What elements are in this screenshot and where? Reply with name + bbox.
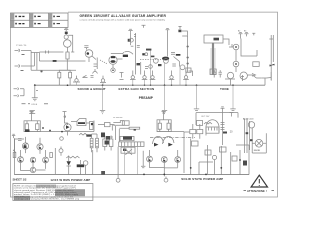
- dark bar DB: [77, 164, 85, 167]
- reverb driver bar: [212, 43, 214, 75]
- dark blob m2: [106, 136, 110, 140]
- supply tee S-left2: [63, 112, 67, 116]
- svg-text:PREAMP: PREAMP: [139, 96, 154, 100]
- resistor R20: [253, 62, 259, 67]
- driver box Q7: [77, 119, 86, 126]
- speaker SP1: [255, 140, 263, 148]
- right vertical pair: [269, 35, 273, 80]
- Q4 legs: [32, 157, 35, 162]
- dark blob q1: [24, 145, 27, 148]
- dark mark w2: [250, 139, 253, 141]
- jack J1 label: [22, 54, 25, 56]
- bracket C12: [182, 31, 188, 36]
- supply tee S-right: [230, 113, 234, 117]
- P6 dot: [235, 46, 237, 48]
- cathode circle V2k: [111, 68, 115, 72]
- P12 stem: [150, 71, 156, 80]
- wire V2 out: [113, 59, 123, 68]
- pot P11 stem: [183, 71, 192, 80]
- OT arc: [206, 120, 219, 127]
- pot P9 stem: [142, 71, 148, 80]
- arc hump QL: [153, 136, 164, 144]
- bus riser right: [264, 78, 266, 85]
- resistor R31: [36, 124, 39, 130]
- tube V5: [64, 124, 71, 131]
- notes text: [14, 184, 80, 200]
- resistor R32: [158, 123, 161, 129]
- blob R12: [151, 56, 155, 58]
- wire V5: [64, 115, 67, 136]
- wire tank: [223, 39, 233, 47]
- wire diag: [174, 57, 180, 67]
- tube V2: [109, 56, 117, 64]
- marks near C8: [131, 45, 134, 47]
- interior mid parts: rect pm: [205, 150, 211, 155]
- transformer box T1a: [190, 130, 196, 134]
- driver box R: [157, 120, 171, 132]
- QO1 legs: [149, 156, 152, 161]
- pot P6: [233, 44, 239, 50]
- wire 187: [187, 36, 189, 72]
- tube V3: [240, 72, 247, 79]
- input jack J2: [15, 65, 25, 68]
- notes dark blot2: [14, 196, 30, 200]
- pot P5 stem: [100, 76, 106, 83]
- pot drops: [77, 79, 187, 85]
- zigzag R70: [204, 122, 212, 124]
- junction dots on bus: [34, 84, 234, 86]
- wire pots: [232, 44, 236, 72]
- svg-text:SOUND & BRIGHT: SOUND & BRIGHT: [78, 87, 106, 91]
- jack J2 label: [21, 70, 24, 72]
- small circle trim: [60, 137, 64, 141]
- pot knob dark: [162, 57, 169, 61]
- dashed link: [140, 59, 161, 61]
- resistor R40: [90, 138, 93, 148]
- switch S1: [83, 75, 88, 77]
- pot P5: [101, 79, 104, 82]
- extra verticals mid: [151, 50, 181, 85]
- svg-text:B2: B2: [238, 31, 240, 33]
- rect p1: [192, 141, 199, 146]
- pot P3: [153, 58, 158, 63]
- connector ring CN2: [164, 178, 168, 182]
- reverb cable shield: [211, 48, 215, 75]
- trim marks: [171, 53, 175, 55]
- wire CN2: [165, 177, 167, 179]
- wire mz: [98, 125, 115, 131]
- transistor Q2: [37, 144, 43, 150]
- wires k: [116, 126, 130, 142]
- R50 dark end: [134, 129, 136, 131]
- page border frame: [11, 12, 278, 197]
- dark mark d1: [137, 63, 141, 65]
- box under header: [121, 147, 135, 153]
- ground drop GR: [141, 151, 145, 168]
- svg-text:0 10 0: 0 10 0: [32, 104, 38, 106]
- P7 dot: [235, 63, 237, 65]
- bus under box L: [24, 131, 94, 133]
- OT hatch: [206, 127, 219, 136]
- TR2 stem: [60, 147, 62, 156]
- small box K1: [122, 121, 129, 126]
- comb dark: [91, 123, 93, 125]
- power amp box right edge: [248, 145, 250, 175]
- ground G4: [162, 110, 167, 114]
- emitter resistor RE1: [50, 153, 53, 158]
- svg-text:TONE: TONE: [220, 87, 229, 91]
- driver cluster wires: [71, 121, 94, 132]
- ground G2: [29, 110, 35, 113]
- dashed diag: [100, 60, 108, 64]
- grid stopper R2: [53, 60, 57, 62]
- dark mark pm: [243, 161, 247, 166]
- svg-text:a classic all tube preamp desi: a classic all tube preamp design with a …: [80, 19, 166, 22]
- V2a cathode dot: [87, 52, 90, 55]
- small box T21: [197, 121, 203, 126]
- header drop wire: [117, 147, 119, 179]
- marks eq: [18, 139, 22, 141]
- Q7 dark bar: [78, 122, 85, 124]
- footswitch contact 1: [14, 88, 25, 90]
- tee T12: [166, 29, 170, 57]
- gain pot dark blob: [142, 53, 145, 55]
- triangle TR: [168, 143, 173, 147]
- resistor R33: [167, 123, 170, 129]
- arc hump QR: [163, 136, 175, 144]
- knob row resistor Rb: [69, 72, 72, 78]
- transistor dark spots: [20, 146, 179, 162]
- power amp box top stub: [14, 139, 249, 145]
- grid wire to V1: [39, 51, 63, 62]
- wires box L: [27, 116, 37, 132]
- bracket wire C1: [66, 34, 74, 52]
- cap C8 body: [128, 39, 131, 42]
- OT base rect: [206, 127, 219, 133]
- resistor R50: [129, 127, 140, 129]
- ground G1: [32, 98, 38, 101]
- label dashes: [22, 103, 31, 105]
- reverb jack rect: [210, 69, 216, 75]
- wires output R: [150, 150, 178, 176]
- Q5 legs: [45, 157, 48, 162]
- bus top wire: [31, 52, 39, 54]
- header drops light: [125, 147, 138, 175]
- svg-text:OUT 20V: OUT 20V: [201, 116, 210, 118]
- warning side marks: [244, 190, 275, 192]
- speaker X: [256, 141, 261, 146]
- dark bits: [86, 134, 91, 136]
- Q6 legs: [32, 167, 35, 172]
- revision table: [11, 13, 69, 27]
- wire col x92.7: [92, 150, 94, 174]
- resistor R41: [96, 138, 99, 148]
- dark mark in box: [123, 149, 126, 151]
- right interior verticals: [191, 139, 240, 175]
- svg-text:P 100 / 20: P 100 / 20: [16, 45, 27, 47]
- svg-text:ATTENZIONE !: ATTENZIONE !: [247, 189, 267, 193]
- dark bar R11: [111, 56, 115, 58]
- reverb tank box: [204, 35, 223, 43]
- dark blob m1: [101, 133, 105, 138]
- vertical pm: [199, 145, 215, 174]
- resistor hatch: [90, 141, 98, 146]
- transistor Q6: [30, 167, 35, 172]
- long wire mid: [134, 33, 136, 75]
- tube V2a: [85, 50, 93, 58]
- wires output L: [21, 148, 56, 174]
- tone caps 2: [219, 70, 222, 77]
- X wires: [125, 149, 132, 154]
- cluster rect B: [109, 139, 113, 147]
- arc wire: [125, 51, 134, 54]
- pot P7: [233, 61, 239, 67]
- border tee TB: [12, 134, 15, 138]
- output top wires: [196, 113, 238, 125]
- right verticals: [245, 119, 253, 154]
- diode bar: [67, 165, 71, 167]
- wire V2a: [57, 56, 98, 69]
- bus junction dots2: [132, 84, 187, 86]
- cap C11: [178, 30, 181, 33]
- node dots column: [187, 46, 189, 65]
- supply tee S-mid: [162, 112, 166, 116]
- input bus wire 3: [36, 53, 38, 71]
- pot P4 ring: [164, 59, 169, 64]
- transistor Q4: [30, 157, 35, 162]
- cap C30: [221, 123, 225, 125]
- QO2 legs: [163, 157, 166, 162]
- notes dark blot: [55, 189, 85, 196]
- cluster dark A: [105, 141, 110, 145]
- QO3 legs: [177, 157, 180, 162]
- input bus wire 1: [30, 51, 32, 71]
- box glyph G12: [186, 68, 191, 72]
- wire V1 cathode: [67, 48, 69, 53]
- svg-text:xx xxx xxx: xx xxx xxx: [113, 117, 122, 119]
- zigzag R60: [66, 156, 79, 158]
- svg-text:8R/4R: 8R/4R: [254, 150, 261, 152]
- C1 body: [65, 32, 68, 34]
- input bus wire 4: [38, 53, 40, 62]
- electrolytic cap C8 tee: [128, 29, 132, 33]
- transistor Q8: [83, 161, 88, 166]
- comb resistor: [90, 122, 94, 130]
- dark dash e1: [223, 132, 227, 134]
- pot P8: [131, 76, 134, 79]
- dark bar R11b: [123, 55, 128, 57]
- wire V1 down: [67, 59, 76, 71]
- connector ring CN1: [116, 178, 120, 182]
- dark bar R15: [176, 54, 181, 56]
- ground bus y85: [35, 84, 265, 86]
- transistor Q3: [18, 157, 24, 163]
- circle pm: [212, 155, 216, 159]
- notes box: [13, 184, 93, 201]
- pin header J10: [119, 142, 144, 147]
- output transistor QO2: [161, 157, 167, 163]
- step bracket wires: [113, 121, 124, 126]
- bus bottom wire: [31, 70, 67, 72]
- dark blob m3: [123, 137, 132, 140]
- transistor Q1: [22, 143, 28, 149]
- wires R40: [92, 134, 97, 152]
- arc glyph: [93, 69, 98, 74]
- border tee wire: [13, 138, 16, 153]
- tee T11: [178, 26, 181, 29]
- footswitch contact 2: [14, 89, 25, 97]
- cap C31: [221, 128, 225, 130]
- node wire: [130, 33, 132, 45]
- wires knob row: [59, 70, 70, 85]
- Q1 legs: [25, 137, 28, 153]
- input jack J1: [15, 49, 25, 52]
- wires box R: [160, 116, 169, 132]
- tone wires: [225, 75, 244, 85]
- dark blob bx: [25, 129, 30, 132]
- svg-text:SHEET 1/2: SHEET 1/2: [13, 178, 27, 182]
- notes dark blot3: [36, 185, 56, 188]
- tee mark under subtitle: [142, 25, 146, 28]
- rectifier ring: [248, 122, 254, 128]
- filter cap C1 tee: [64, 28, 68, 31]
- tee T20: [221, 107, 225, 145]
- emitter resistor RE2: [13, 153, 16, 158]
- pot P9: [143, 76, 146, 79]
- tank dark blob: [214, 38, 220, 41]
- resistor R30: [25, 124, 28, 130]
- trimmer TR2: [59, 149, 63, 153]
- mark B4: [252, 33, 255, 35]
- junction dots pw: [42, 127, 63, 132]
- svg-text:AC20 C200: AC20 C200: [243, 118, 254, 121]
- dark mark d2: [158, 64, 162, 66]
- output transistor QO1: [147, 156, 153, 162]
- arrowheads: [270, 64, 275, 67]
- marks x120: [120, 73, 124, 80]
- caps c40: [172, 64, 176, 66]
- small circle sc1: [149, 65, 153, 69]
- volume pot P1: [75, 79, 78, 82]
- cap C9: [137, 46, 140, 48]
- Q2 legs: [39, 138, 42, 154]
- tube V1: [64, 40, 72, 48]
- power amp box left edge: [13, 139, 15, 175]
- cluster wires: [101, 136, 113, 151]
- label dash2: [44, 103, 48, 105]
- wire stub: [141, 62, 148, 75]
- tone tube V4: [227, 72, 233, 78]
- tone caps: [213, 70, 216, 77]
- input bus wire 2: [33, 53, 35, 67]
- svg-text:B3: B3: [244, 31, 246, 33]
- wires sub: [69, 156, 86, 175]
- ground G3: [100, 110, 105, 114]
- svg-text:GREEN 15R/20RT ALL-VALVE GUITA: GREEN 15R/20RT ALL-VALVE GUITAR AMPLIFIE…: [80, 14, 167, 18]
- box over header: [120, 136, 134, 140]
- ground G5: [194, 109, 199, 111]
- diode D1: [67, 161, 71, 165]
- dark boxes right: [101, 171, 105, 175]
- driver box L: [24, 121, 40, 132]
- svg-text:12/15 W RMS POWER AMP: 12/15 W RMS POWER AMP: [50, 178, 90, 182]
- zigzag R45: [79, 133, 87, 135]
- svg-text:SOLID STATE POWER AMP: SOLID STATE POWER AMP: [181, 177, 223, 181]
- bus under box R: [157, 131, 184, 133]
- dark mark w1: [246, 132, 249, 134]
- ground G6: [230, 109, 235, 111]
- cap glyph G11: [180, 65, 185, 70]
- pot P10: [170, 76, 173, 79]
- dash-dot divider: [150, 137, 195, 139]
- svg-text:EXTRA GAIN SECTION: EXTRA GAIN SECTION: [119, 87, 155, 91]
- warning bang: [258, 179, 260, 186]
- triangle TL: [154, 143, 159, 147]
- title text: [80, 14, 167, 22]
- pot P11: [184, 76, 187, 79]
- speaker wires: [252, 133, 266, 153]
- wire jack1 to bus: [24, 50, 31, 52]
- supply tee S-left: [30, 112, 34, 116]
- wire jack2 to bus: [24, 65, 34, 67]
- transformer box T1b: [197, 130, 203, 134]
- rect p3: [232, 156, 237, 161]
- small rect mz: [105, 123, 111, 127]
- warning triangle: [251, 175, 267, 187]
- interior dots: [143, 159, 241, 175]
- pot P12: [151, 76, 154, 79]
- pot P2: [145, 53, 148, 56]
- power amp box bottom: [14, 174, 249, 176]
- resistor R4: [66, 52, 69, 59]
- pot P8 stem: [130, 71, 136, 80]
- cap C8 ring: [130, 38, 134, 42]
- dark dash c: [146, 49, 151, 51]
- bright cap: [91, 76, 94, 78]
- supply tee B3: [245, 32, 249, 36]
- rect p2: [220, 147, 227, 152]
- fx send wire: [262, 72, 272, 81]
- V2 inner ellipse: [110, 60, 115, 63]
- coupling cap C2: [84, 46, 88, 50]
- drop to ground G1: [35, 85, 38, 97]
- transistor Q5: [43, 157, 49, 163]
- Q3 legs: [20, 157, 23, 162]
- knob row resistor Ra: [58, 72, 61, 78]
- cluster rect A: [103, 139, 107, 147]
- V5 arrow: [66, 125, 70, 129]
- supply tee B2: [239, 32, 243, 38]
- arrows out: [247, 74, 261, 79]
- pot P10 stem: [169, 71, 175, 80]
- grid cap circle: [64, 35, 68, 39]
- L wire: [241, 39, 257, 57]
- pot P1 stem: [73, 76, 80, 82]
- step wire to V2: [111, 52, 124, 53]
- V2k dot: [112, 69, 114, 71]
- transformer wires: [184, 124, 200, 173]
- header pins: [122, 142, 141, 147]
- output transistor QO3: [175, 157, 181, 163]
